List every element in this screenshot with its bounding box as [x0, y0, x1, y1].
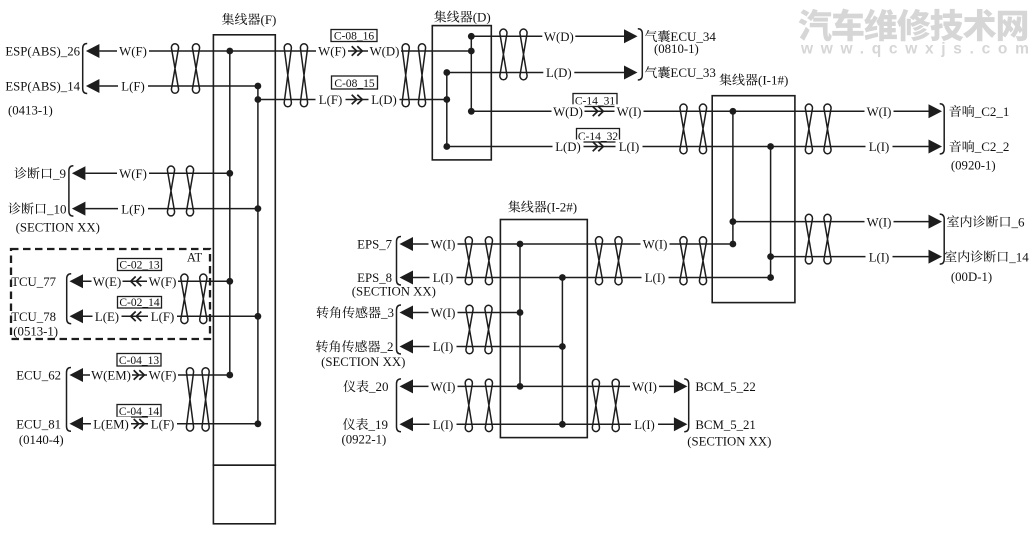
twisted pair	[805, 214, 812, 264]
wire L(I) from EPS_8 through hub I-2# to hub I-1# L-bus	[413, 277, 771, 279]
arrow into device	[624, 66, 638, 80]
svg-text:C-14_32: C-14_32	[578, 131, 619, 143]
signal label W(I)	[429, 379, 458, 394]
twisted pair	[186, 166, 193, 216]
svg-text:L(I): L(I)	[869, 250, 890, 264]
twisted pair	[595, 237, 602, 285]
twisted pair	[500, 29, 507, 80]
svg-text:W(EM): W(EM)	[91, 369, 131, 383]
twisted pair	[615, 237, 622, 285]
connector box C-02_14	[118, 297, 162, 309]
wire W(I) hub I-1# to 音响_C2_1 arrow	[733, 110, 929, 112]
connector box C-08_16	[331, 30, 377, 43]
connector chevron C-02_13	[131, 277, 142, 287]
junction	[559, 274, 566, 281]
arrow into device	[929, 250, 943, 264]
twisted pair	[192, 44, 199, 94]
signal label W(D)	[542, 29, 575, 44]
signal label W(F)	[316, 44, 348, 59]
twisted pair	[186, 368, 193, 431]
junction	[468, 108, 475, 115]
wire L(D) hub D to 气囊ECU_33 arrow	[447, 72, 625, 74]
signal label L(I)	[866, 250, 893, 265]
label 诊断口_9	[14, 166, 66, 181]
svg-text:EPS_8: EPS_8	[357, 271, 392, 285]
svg-text:BCM_5_22: BCM_5_22	[695, 380, 755, 394]
svg-text:_C2_1: _C2_1	[974, 104, 1010, 119]
twisted pair	[465, 379, 472, 432]
arrow into device	[400, 237, 414, 251]
twisted pair	[485, 379, 492, 431]
label 音响_C2_2	[949, 139, 1009, 154]
signal label W(F)	[117, 166, 149, 181]
label 集线器(I-2#)	[508, 200, 577, 215]
signal label L(F)	[316, 93, 346, 108]
pin bracket 气囊ECU	[638, 29, 643, 80]
svg-text:(0513-1): (0513-1)	[13, 325, 58, 339]
watermark 汽车维修技术网	[799, 9, 1027, 42]
svg-text:ECU_62: ECU_62	[16, 369, 61, 383]
wire L(E)/L(F) from TCU_78 to hub F L-bus	[83, 315, 258, 317]
hub I-2# W bus	[519, 244, 521, 386]
connector box C-02_13	[118, 259, 162, 272]
junction	[767, 274, 774, 281]
wire W(I) from EPS_7 through hub I-2# to hub I-1# W-bus	[413, 243, 733, 245]
twisted pair	[699, 237, 706, 285]
junction	[226, 278, 233, 285]
arrow into device	[70, 417, 84, 431]
hub box 集线器(D)	[432, 26, 491, 160]
arrow into device	[400, 306, 414, 320]
arrow into device	[624, 29, 638, 43]
label 转角传感器_2	[316, 339, 393, 354]
connector chevron C-02_14	[131, 312, 142, 322]
svg-text:(00D-1): (00D-1)	[951, 270, 992, 284]
signal label W(D)	[368, 44, 401, 59]
svg-text:TCU_78: TCU_78	[11, 310, 56, 324]
wire W(EM)/W(F) from ECU_62 to hub F W-bus	[83, 374, 230, 376]
wire W(E)/W(F) from TCU_77 to hub F W-bus	[83, 280, 230, 282]
arrow into device	[72, 202, 86, 216]
svg-text:W(D): W(D)	[553, 105, 583, 119]
signal label W(I)	[865, 104, 894, 119]
svg-text:_3: _3	[380, 305, 394, 320]
arrow into device	[400, 340, 414, 354]
svg-text:L(I): L(I)	[619, 140, 640, 154]
svg-text:(SECTION XX): (SECTION XX)	[687, 435, 771, 449]
svg-text:W(I): W(I)	[431, 380, 456, 394]
svg-text:W(I): W(I)	[867, 105, 892, 119]
pin bracket ESP(ABS)	[83, 44, 88, 94]
twisted pair	[466, 305, 473, 354]
arrow into device	[86, 79, 100, 93]
twisted pair	[699, 104, 706, 154]
svg-text:W(I): W(I)	[617, 105, 642, 119]
signal label L(D)	[543, 66, 574, 81]
svg-text:_19: _19	[368, 417, 389, 432]
signal label W(I)	[865, 215, 894, 230]
wire W(D)/W(I) hub D to hub I-1# W-bus	[471, 110, 733, 112]
junction	[255, 313, 262, 320]
svg-text:_2: _2	[380, 339, 394, 354]
wire L(I) hub I-1# to 室内诊断口_14 arrow	[771, 256, 929, 258]
svg-text:L(F): L(F)	[121, 202, 144, 216]
hub box 集线器(F)	[213, 35, 275, 465]
twisted pair	[520, 29, 527, 80]
connector chevron C-08_16	[352, 46, 363, 56]
twisted pair	[284, 44, 291, 107]
arrow into device	[70, 309, 84, 323]
signal label W(F)	[147, 274, 178, 289]
signal label L(I)	[430, 340, 457, 355]
svg-text:L(F): L(F)	[151, 418, 174, 432]
twisted pair	[680, 237, 687, 285]
svg-text:_C2_2: _C2_2	[974, 139, 1010, 154]
junction	[443, 69, 450, 76]
svg-text:L(I): L(I)	[433, 271, 454, 285]
twisted pair	[612, 379, 619, 431]
junction	[443, 96, 450, 103]
arrow into device	[674, 379, 688, 393]
pin bracket 转角传感器	[397, 305, 402, 354]
twisted pair	[465, 237, 472, 285]
junction	[767, 143, 774, 150]
svg-text:www.qcwxjs.com: www.qcwxjs.com	[800, 41, 1035, 58]
hub F W bus	[229, 51, 231, 375]
svg-text:ECU_33: ECU_33	[670, 65, 716, 80]
wire L(I) from 转角传感器_2 to hub I-2# L-bus	[413, 346, 562, 348]
twisted pair	[300, 44, 307, 107]
signal label L(D)	[553, 140, 584, 155]
svg-text:AT: AT	[187, 251, 203, 265]
svg-text:W(D): W(D)	[370, 45, 400, 59]
junction	[226, 170, 233, 177]
hub F terminator box	[213, 465, 275, 524]
label 集线器(D)	[434, 10, 491, 25]
junction	[468, 33, 475, 40]
svg-text:_14: _14	[1008, 249, 1029, 264]
svg-text:C-04_14: C-04_14	[119, 406, 160, 418]
svg-text:C-02_14: C-02_14	[119, 297, 160, 309]
svg-text:ECU_81: ECU_81	[16, 418, 61, 432]
svg-text:(F): (F)	[261, 12, 277, 27]
svg-text:W(F): W(F)	[318, 45, 346, 59]
arrow into device	[674, 417, 688, 431]
connector chevron C-04_13	[134, 370, 145, 380]
arrow into device	[929, 215, 943, 229]
svg-text:L(I): L(I)	[433, 340, 454, 354]
signal label W(F)	[117, 44, 149, 59]
arrow into device	[70, 368, 84, 382]
pin bracket ECU	[67, 368, 72, 432]
wire L(I) from 仪表_19 through hub I-2# to BCM_5_21 arrow	[413, 423, 674, 425]
wire W(F) from ESP(ABS)_26 to hub F W-bus	[99, 50, 229, 52]
signal label W(D)	[552, 104, 585, 119]
signal label L(D)	[369, 93, 400, 108]
svg-text:W(F): W(F)	[149, 275, 177, 289]
wire L(EM)/L(F) from ECU_81 to hub F L-bus	[83, 423, 258, 425]
arrow into device	[400, 417, 414, 431]
junction	[255, 96, 262, 103]
svg-text:(0810-1): (0810-1)	[654, 42, 699, 56]
svg-text:W(I): W(I)	[867, 215, 892, 229]
svg-text:L(I): L(I)	[433, 418, 454, 432]
svg-text:(0413-1): (0413-1)	[8, 104, 53, 118]
junction	[559, 343, 566, 350]
connector box C-08_15	[332, 76, 378, 90]
junction	[468, 48, 475, 55]
svg-text:L(F): L(F)	[319, 93, 342, 107]
svg-text:W(I): W(I)	[431, 306, 456, 320]
signal label L(I)	[866, 140, 893, 155]
junction	[226, 48, 233, 55]
signal label L(F)	[148, 417, 177, 432]
junction	[517, 309, 524, 316]
svg-text:_9: _9	[52, 166, 66, 181]
twisted pair	[824, 104, 831, 154]
svg-text:W(F): W(F)	[119, 167, 147, 181]
pin bracket EPS	[397, 237, 402, 286]
arrow into device	[70, 274, 84, 288]
signal label L(I)	[430, 271, 457, 286]
junction	[255, 83, 262, 90]
connector box C-14_32	[577, 129, 620, 143]
label 气囊ECU_33	[645, 65, 716, 80]
pin bracket 仪表	[397, 379, 402, 432]
svg-text:_20: _20	[368, 379, 389, 394]
wire W(F) from 诊断口_9 to hub F W-bus	[85, 172, 229, 174]
arrow into device	[400, 379, 414, 393]
hub D bus 2	[470, 36, 472, 111]
twisted pair	[200, 274, 207, 324]
svg-text:L(I): L(I)	[869, 140, 890, 154]
svg-text:W(I): W(I)	[431, 238, 456, 252]
twisted pair	[171, 44, 178, 94]
junction	[730, 218, 737, 225]
wire L(F) from 诊断口_10 to hub F L-bus	[85, 208, 258, 210]
twisted pair	[824, 214, 831, 264]
wire W(D) hub D to 气囊ECU_34 arrow	[471, 35, 624, 37]
hub box 集线器(I-2#)	[500, 220, 587, 438]
label 转角传感器_3	[317, 305, 394, 320]
signal label W(I)	[429, 306, 458, 321]
svg-text:C-08_16: C-08_16	[334, 30, 375, 42]
svg-text:C-08_15: C-08_15	[334, 78, 375, 90]
twisted pair	[418, 44, 425, 107]
svg-text:ESP(ABS)_26: ESP(ABS)_26	[5, 45, 80, 59]
svg-text:L(I): L(I)	[634, 418, 655, 432]
junction	[559, 421, 566, 428]
signal label L(EM)	[91, 417, 131, 432]
twisted pair	[167, 166, 174, 216]
label 诊断口_10	[8, 201, 66, 216]
junction	[517, 383, 524, 390]
arrow into device	[929, 104, 943, 118]
svg-text:L(F): L(F)	[151, 310, 174, 324]
connector chevron C-04_14	[134, 419, 145, 429]
signal label W(E)	[92, 274, 123, 289]
svg-text:W(F): W(F)	[119, 45, 147, 59]
arrow into device	[86, 44, 100, 58]
svg-text:(I-2#): (I-2#)	[547, 200, 577, 215]
twisted pair	[805, 104, 812, 154]
pin bracket 诊断口	[69, 166, 74, 216]
label 仪表_20	[343, 379, 388, 394]
svg-text:L(F): L(F)	[121, 80, 144, 94]
junction	[767, 253, 774, 260]
signal label L(F)	[118, 202, 148, 217]
junction	[226, 372, 233, 379]
connector chevron C-14_31	[593, 107, 604, 117]
wire W(I) from 转角传感器_3 to hub I-2# W-bus	[413, 312, 520, 314]
pin bracket TCU	[67, 274, 72, 324]
twisted pair	[181, 274, 188, 324]
svg-text:(I-1#): (I-1#)	[758, 73, 788, 88]
svg-text:TCU_77: TCU_77	[11, 275, 56, 289]
arrow into device	[400, 271, 414, 285]
pin bracket 室内诊断口	[940, 214, 945, 264]
svg-text:ESP(ABS)_14: ESP(ABS)_14	[5, 80, 80, 94]
signal label L(F)	[118, 79, 148, 94]
junction	[443, 143, 450, 150]
svg-text:L(D): L(D)	[546, 66, 572, 80]
svg-text:_10: _10	[46, 201, 67, 216]
twisted pair	[680, 104, 687, 154]
twisted pair	[485, 305, 492, 354]
wire L(F)/L(D) hub F to hub D L-bus	[258, 99, 447, 101]
twisted pair	[202, 368, 209, 431]
signal label L(I)	[642, 271, 669, 286]
signal label W(I)	[429, 237, 458, 252]
label 室内诊断口_6	[947, 214, 1025, 229]
pin bracket 音响	[940, 104, 945, 154]
wire W(I) hub I-1# to 室内诊断口_6 arrow	[733, 221, 929, 223]
hub D bus 1	[446, 73, 448, 147]
svg-text:(SECTION XX): (SECTION XX)	[16, 221, 100, 235]
svg-text:BCM_5_21: BCM_5_21	[695, 418, 755, 432]
svg-text:(D): (D)	[473, 10, 491, 25]
signal label L(I)	[631, 417, 658, 432]
signal label W(I)	[641, 237, 670, 252]
twisted pair	[485, 237, 492, 285]
hub I-1# L bus	[770, 147, 772, 278]
junction	[730, 108, 737, 115]
svg-text:(0140-4): (0140-4)	[19, 433, 64, 447]
svg-text:W(I): W(I)	[632, 380, 657, 394]
hub I-1# W bus	[732, 111, 734, 244]
twisted pair	[592, 379, 599, 431]
signal label W(F)	[147, 368, 178, 383]
wire W(I) from 仪表_20 through hub I-2# to BCM_5_22 arrow	[413, 385, 674, 387]
label 音响_C2_1	[949, 104, 1009, 119]
label 室内诊断口_14	[945, 249, 1029, 264]
arrow into device	[72, 166, 86, 180]
svg-text:W(D): W(D)	[544, 30, 574, 44]
svg-text:C-04_13: C-04_13	[119, 355, 160, 367]
signal label W(I)	[630, 379, 659, 394]
svg-text:L(D): L(D)	[555, 140, 581, 154]
svg-text:L(EM): L(EM)	[93, 418, 129, 432]
label 集线器(I-1#)	[719, 73, 788, 88]
signal label L(I)	[430, 417, 457, 432]
signal label L(E)	[93, 309, 122, 324]
connector chevron C-14_32	[593, 142, 604, 152]
svg-text:W(E): W(E)	[93, 275, 121, 289]
dashed AT gearbox boundary box	[11, 249, 210, 339]
svg-text:(0920-1): (0920-1)	[951, 159, 996, 173]
svg-text:_6: _6	[1011, 214, 1026, 229]
svg-text:W(I): W(I)	[643, 238, 668, 252]
signal label W(EM)	[90, 368, 132, 383]
svg-text:(SECTION XX): (SECTION XX)	[321, 355, 405, 369]
svg-text:ECU_34: ECU_34	[670, 29, 716, 44]
connector box C-14_31	[573, 94, 617, 108]
wire L(F) from ESP(ABS)_14 to hub F L-bus	[99, 85, 258, 87]
arrow into device	[929, 140, 943, 154]
svg-text:L(D): L(D)	[371, 93, 397, 107]
label 气囊ECU_34	[645, 29, 716, 44]
svg-text:C-02_13: C-02_13	[119, 259, 160, 271]
junction	[730, 241, 737, 248]
signal label L(F)	[148, 309, 177, 324]
label 仪表_19	[343, 417, 388, 432]
junction	[255, 420, 262, 427]
wire L(I) hub I-1# to 音响_C2_2 arrow	[771, 146, 929, 148]
svg-text:L(I): L(I)	[645, 271, 666, 285]
connector box C-04_14	[117, 405, 161, 418]
svg-text:(0922-1): (0922-1)	[342, 433, 387, 447]
hub I-2# L bus	[561, 278, 563, 425]
wire L(D)/L(I) hub D to hub I-1# L-bus	[447, 146, 771, 148]
svg-text:EPS_7: EPS_7	[357, 238, 392, 252]
connector box C-04_13	[117, 354, 161, 367]
connector chevron C-08_15	[352, 95, 363, 105]
junction	[517, 241, 524, 248]
junction	[255, 205, 262, 212]
pin bracket BCM	[684, 379, 689, 432]
hub F L bus	[257, 86, 259, 424]
svg-text:W(F): W(F)	[149, 369, 177, 383]
wire W(F)/W(D) hub F to hub D W-bus	[230, 50, 471, 52]
signal label W(I)	[615, 104, 644, 119]
signal label L(I)	[616, 140, 643, 155]
svg-text:L(E): L(E)	[95, 310, 119, 324]
twisted pair	[402, 44, 409, 107]
svg-text:(SECTION XX): (SECTION XX)	[352, 285, 436, 299]
hub box 集线器(I-1#)	[712, 96, 795, 303]
label 集线器(F)	[222, 12, 276, 27]
